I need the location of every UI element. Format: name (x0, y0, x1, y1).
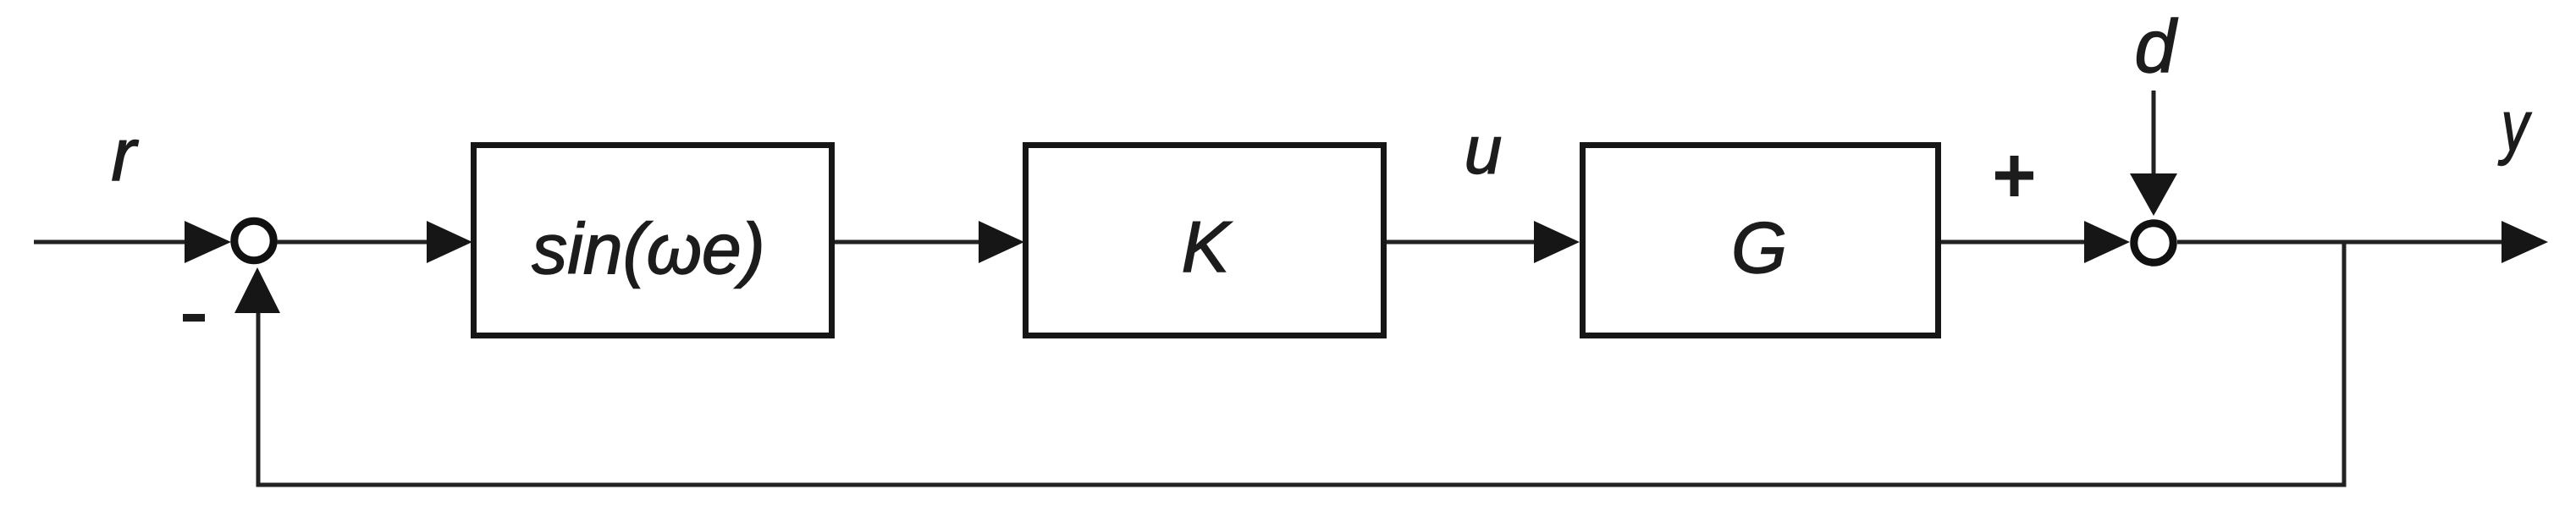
svg-text:r: r (111, 113, 139, 196)
svg-text:G: G (1731, 208, 1787, 289)
feedback wire vertical right (2342, 242, 2347, 487)
arrowhead into summing junction S1 (185, 221, 231, 263)
wire G block to summing junction S2 (1941, 240, 2089, 245)
svg-text:d: d (2135, 4, 2179, 88)
svg-text:sin(ωe): sin(ωe) (532, 209, 764, 289)
arrowhead from d into S2 (2130, 173, 2177, 216)
summing junction S1 (234, 221, 273, 260)
wire S2 to output (2177, 240, 2504, 245)
block G (1583, 146, 1939, 336)
feedback wire bottom (256, 483, 2347, 487)
arrowhead into K block (979, 221, 1024, 263)
arrowhead into sin block (427, 221, 472, 263)
svg-text:y: y (2497, 86, 2532, 166)
block sin(we) (474, 146, 832, 336)
wire K block to G block (1387, 240, 1537, 245)
wire S1 to sin block (277, 240, 430, 245)
arrowhead into summing junction S2 (2084, 221, 2130, 263)
wire d input (2152, 91, 2156, 179)
arrowhead into G block (1534, 221, 1580, 263)
svg-text:K: K (1182, 207, 1233, 288)
summing junction S2 (2134, 223, 2173, 262)
feedback wire vertical left (256, 311, 261, 487)
svg-text:u: u (1465, 113, 1503, 188)
arrowhead feedback into S1 (234, 267, 280, 313)
arrowhead output (2502, 221, 2548, 263)
block K (1026, 146, 1384, 336)
wire sin block to K block (835, 240, 982, 245)
plus sign (1995, 172, 2033, 180)
wire r input (34, 240, 188, 245)
minus sign (183, 314, 205, 322)
